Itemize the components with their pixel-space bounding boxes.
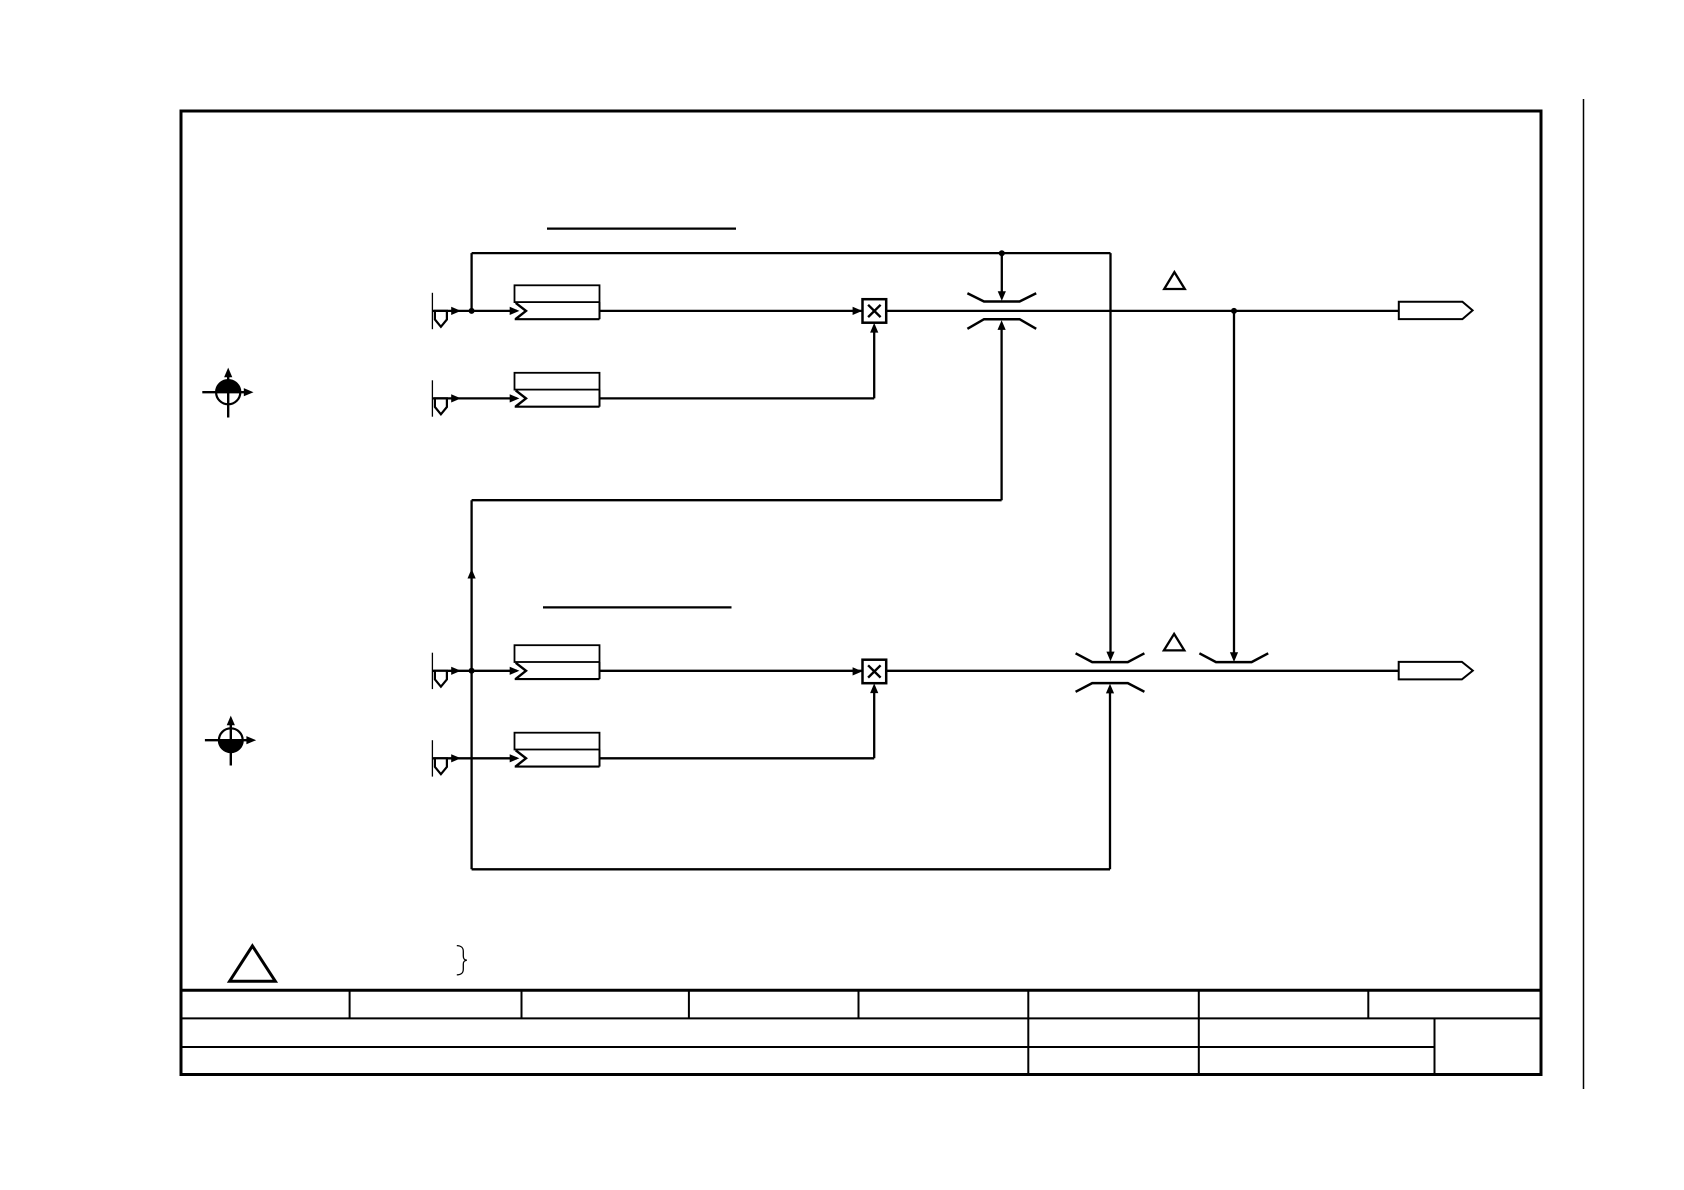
page trim mark line (right edge)	[1583, 99, 1585, 1089]
title block top edge	[181, 989, 1541, 992]
wire long riser to limiter L2 top	[1109, 253, 1111, 652]
drawing frame border	[181, 111, 1541, 1075]
wire riser node C vertical	[470, 500, 472, 869]
input connector E2	[432, 380, 461, 416]
title block row line 1	[181, 1017, 1541, 1019]
junction node B	[1231, 308, 1237, 314]
arrow into limiter L2 lower bound	[1106, 684, 1114, 694]
wire riser row4 to multiplier M2	[873, 692, 875, 758]
wire row 3 input segment	[432, 670, 517, 672]
half limiter L3 upper bound bar	[1199, 653, 1268, 662]
arrow into multiplier M2 bottom	[870, 683, 878, 693]
title block column separator full height A	[1027, 990, 1029, 1074]
transfer block B3	[510, 645, 600, 679]
transfer block B4	[510, 733, 600, 767]
wire row 1 input segment	[432, 310, 517, 312]
output connector A2	[1399, 662, 1473, 680]
arrow up on node C riser	[468, 569, 476, 579]
junction node A	[469, 308, 475, 314]
footnote triangle mark	[230, 946, 276, 981]
section 1 title underline	[547, 227, 736, 229]
arrow into limiter L2 upper bound	[1106, 652, 1114, 662]
input connector E4	[432, 740, 461, 776]
footnote brace	[457, 946, 467, 975]
transfer block B2	[510, 373, 600, 407]
arrow into limiter L1 lower bound	[998, 320, 1006, 330]
wire riser row2 to multiplier M1	[873, 332, 875, 399]
limiter L2 upper bound bar	[1076, 653, 1145, 662]
multiplier M1	[853, 299, 887, 323]
input connector E1	[432, 293, 461, 329]
title block merged-cell separator	[1434, 1018, 1436, 1074]
junction top link	[999, 250, 1005, 256]
arrow into half limiter L3	[1230, 652, 1238, 662]
wire mid link horizontal	[472, 499, 1002, 501]
wire riser to limiter L1 lower bound	[1000, 329, 1002, 500]
wire riser to limiter L2 lower bound	[1109, 692, 1111, 869]
delta symbol D1	[1164, 272, 1185, 289]
wire row 3 (signal path channel 2)	[600, 670, 1399, 672]
wire row 2 input segment	[432, 397, 517, 399]
junction node C	[469, 668, 475, 674]
datum symbol P1 (top half filled)	[202, 368, 253, 418]
wire row 4 (rate input channel 2)	[600, 757, 875, 759]
datum symbol P2 (bottom half filled)	[205, 716, 256, 766]
wire riser node A up	[470, 253, 472, 311]
transfer block B1	[510, 285, 600, 319]
arrow into multiplier M1 bottom	[870, 323, 878, 333]
wire top link horizontal	[472, 252, 1111, 254]
limiter L1 upper bound bar	[967, 293, 1036, 301]
limiter L1 lower bound bar	[967, 319, 1036, 329]
wire branch into limiter L1 upper bound	[1001, 253, 1003, 292]
input connector E3	[432, 653, 461, 689]
title block column separators (header row)	[350, 990, 1369, 1018]
limiter L2 lower bound bar	[1076, 683, 1145, 692]
title block column separator full height B	[1198, 990, 1200, 1074]
title block row line 2	[181, 1046, 1435, 1048]
delta symbol D2	[1164, 634, 1184, 651]
wire row 2 (rate input channel 1)	[600, 397, 875, 399]
multiplier M2	[853, 660, 887, 684]
section 2 title underline	[543, 606, 732, 608]
wire riser from node B to half limiter L3	[1233, 311, 1235, 653]
output connector A1	[1399, 302, 1473, 319]
wire row 4 input segment	[432, 757, 517, 759]
arrow into limiter L1 upper bound	[998, 291, 1006, 301]
wire row 1 (signal path channel 1)	[600, 310, 1399, 312]
wire bottom link horizontal	[472, 868, 1110, 870]
